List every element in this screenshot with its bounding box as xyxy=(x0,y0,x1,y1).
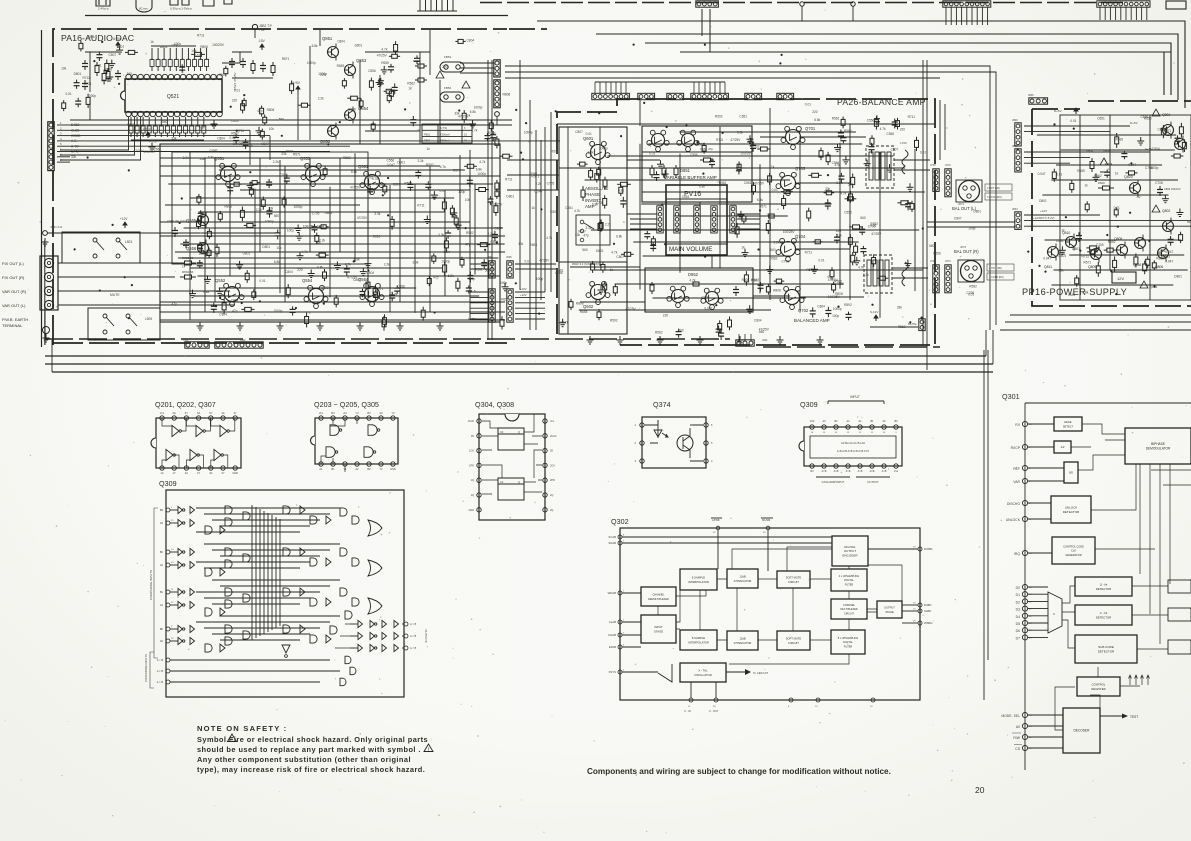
supply arrow A+5V xyxy=(117,42,119,48)
svg-text:R562: R562 xyxy=(832,117,840,121)
svg-text:A0: A0 xyxy=(160,639,164,643)
svg-text:Q301: Q301 xyxy=(1002,392,1020,401)
IC Q374 optocoupler xyxy=(642,417,706,468)
svg-text:100/25V: 100/25V xyxy=(740,152,753,156)
svg-text:D4BD: D4BD xyxy=(924,603,931,607)
svg-text:47/25V: 47/25V xyxy=(458,114,469,118)
svg-text:RXCP: RXCP xyxy=(1011,446,1021,450)
svg-text:Q701: Q701 xyxy=(805,126,816,131)
svg-text:47/25V: 47/25V xyxy=(626,307,637,311)
svg-text:C556: C556 xyxy=(555,271,563,275)
svg-text:CHANNEL: CHANNEL xyxy=(653,594,666,597)
svg-text:D+5V: D+5V xyxy=(1130,121,1138,125)
svg-text:2.2k: 2.2k xyxy=(256,208,262,212)
svg-text:33k: 33k xyxy=(825,187,831,191)
warning Q802 label xyxy=(1152,205,1160,212)
Q301 pin MODE-SEL xyxy=(1022,712,1027,717)
svg-text:C807: C807 xyxy=(575,130,583,134)
zener diodes xyxy=(1091,158,1093,162)
Q301 block decoder xyxy=(1063,708,1100,753)
svg-text:Y4: Y4 xyxy=(355,411,359,415)
label A+5V mid xyxy=(147,132,149,138)
svg-text:A=B: A=B xyxy=(834,470,839,473)
svg-text:47p: 47p xyxy=(257,109,263,113)
svg-text:47p: 47p xyxy=(934,285,940,289)
Q301 block c-bit detector xyxy=(1075,605,1132,625)
svg-text:6.8k: 6.8k xyxy=(1082,291,1088,295)
comb connector top xyxy=(417,0,457,11)
svg-text:Q703: Q703 xyxy=(795,166,806,171)
svg-text:Vdd: Vdd xyxy=(810,420,815,423)
svg-text:6.8k: 6.8k xyxy=(274,260,280,264)
svg-text:R: R xyxy=(180,58,184,60)
svg-text:R571: R571 xyxy=(293,153,301,157)
svg-text:CASCADING INPUTS: CASCADING INPUTS xyxy=(144,654,148,682)
svg-text:ATTENUATOR: ATTENUATOR xyxy=(734,641,752,645)
svg-text:C651: C651 xyxy=(231,119,239,123)
svg-text:R562: R562 xyxy=(770,257,778,261)
transistor Q555 xyxy=(198,215,209,226)
Q302 block xtal oscillator xyxy=(680,663,726,682)
Q309 cascade input A>B xyxy=(166,680,170,684)
parts inside input sub-block xyxy=(596,171,598,174)
wires from connectors into pp16 xyxy=(1024,125,1130,127)
svg-text:R804 56: R804 56 xyxy=(182,270,194,274)
test point circles top xyxy=(800,2,804,6)
resistor R820 xyxy=(1098,187,1103,189)
svg-text:R571: R571 xyxy=(531,174,539,178)
Q302 block channel multiplexer xyxy=(831,599,867,619)
Q302 block input stage xyxy=(641,615,676,643)
svg-text:Vcc: Vcc xyxy=(319,411,324,415)
Q301 block half divider xyxy=(1054,441,1071,453)
svg-text:DEMULTIPLEXER: DEMULTIPLEXER xyxy=(648,598,669,601)
svg-text:100p: 100p xyxy=(468,277,475,281)
svg-text:Q820: Q820 xyxy=(1124,175,1133,179)
svg-text:R562: R562 xyxy=(407,82,415,86)
svg-text:R562: R562 xyxy=(343,156,351,160)
wire top bus left xyxy=(85,15,508,17)
svg-text:R655: R655 xyxy=(529,243,537,247)
svg-text:L503: L503 xyxy=(125,240,132,244)
svg-text:R808: R808 xyxy=(224,205,232,209)
svg-text:4.7k: 4.7k xyxy=(301,250,307,254)
op-amp Q553 xyxy=(306,167,321,182)
resistor network above Q521 xyxy=(151,45,196,47)
svg-text:Q561: Q561 xyxy=(358,164,369,169)
svg-text:0.01: 0.01 xyxy=(649,152,655,156)
svg-text:560: 560 xyxy=(162,120,168,124)
svg-text:0.01: 0.01 xyxy=(259,279,265,283)
svg-text:4.7k: 4.7k xyxy=(440,165,446,169)
Q302 outer box xyxy=(620,528,920,700)
svg-text:T500mA: T500mA xyxy=(440,139,450,143)
svg-text:0.01: 0.01 xyxy=(586,132,592,136)
svg-text:6A: 6A xyxy=(173,411,176,415)
Q301 pin RX xyxy=(1022,421,1027,426)
svg-text:R: R xyxy=(174,58,178,60)
IC Q203 nand gates xyxy=(315,418,398,464)
IC Q201 hex inverter xyxy=(156,418,241,468)
svg-text:4.7k: 4.7k xyxy=(546,236,552,240)
connector J502 single xyxy=(495,112,500,117)
inner rect Q309 pinout xyxy=(810,436,896,458)
Q301 block sub code detector xyxy=(1075,635,1137,663)
svg-text:MUTE: MUTE xyxy=(468,317,476,321)
svg-text:A<B: A<B xyxy=(882,470,887,473)
parts near D652 xyxy=(651,282,653,285)
svg-text:1Y: 1Y xyxy=(173,471,176,475)
svg-text:0.01: 0.01 xyxy=(772,188,778,192)
long verticals x990 xyxy=(989,78,991,330)
filter dashed box L701 xyxy=(866,146,894,188)
svg-text:C651: C651 xyxy=(682,195,690,199)
svg-text:100/25V: 100/25V xyxy=(233,142,246,146)
svg-text:10k: 10k xyxy=(277,246,283,250)
svg-text:C807: C807 xyxy=(109,53,117,57)
Q301 pin RXCP xyxy=(1022,444,1027,449)
extra wires PA16 upper xyxy=(70,119,512,121)
svg-text:J502: J502 xyxy=(183,338,189,342)
svg-text:DETECTOR: DETECTOR xyxy=(1096,615,1111,619)
capacitor group right of Q521 xyxy=(231,58,233,62)
transistor Q556 xyxy=(198,243,209,254)
svg-text:D801: D801 xyxy=(325,211,333,215)
connector J501 column xyxy=(494,80,500,108)
svg-text:DOBM: DOBM xyxy=(924,547,933,551)
svg-text:REGISTER: REGISTER xyxy=(1091,687,1105,691)
svg-text:1k: 1k xyxy=(408,86,412,90)
dashed frame continuation right of PA16 xyxy=(509,28,547,30)
svg-text:ENCODER: ENCODER xyxy=(842,553,858,557)
Q301 pin R/W xyxy=(1022,734,1027,739)
wires amp block horizontals xyxy=(160,157,500,159)
svg-text:INPUT: INPUT xyxy=(850,395,860,399)
frame PA26-BALANCE AMP block xyxy=(557,99,935,345)
svg-text:8 x UPSAMPLING: 8 x UPSAMPLING xyxy=(838,637,858,640)
svg-text:R562: R562 xyxy=(655,330,663,334)
transistor group Q851 xyxy=(328,47,339,58)
svg-text:D801: D801 xyxy=(1039,199,1047,203)
svg-text:PHL.B: PHL.B xyxy=(468,289,476,293)
svg-text:CONTROL CODE: CONTROL CODE xyxy=(1063,545,1084,549)
IC Q304 dual flip-flop xyxy=(479,414,545,520)
svg-text:4 x UPSAMPLING: 4 x UPSAMPLING xyxy=(839,575,859,578)
tall input sub-block rect xyxy=(559,127,627,334)
svg-text:D0: D0 xyxy=(1016,586,1020,590)
svg-text:R592: R592 xyxy=(844,303,852,307)
svg-text:Q811: Q811 xyxy=(1044,265,1052,269)
svg-text:Q602: Q602 xyxy=(583,304,594,309)
svg-text:!: ! xyxy=(428,746,429,751)
connector J704 J074 xyxy=(933,265,939,293)
svg-text:R808: R808 xyxy=(267,108,275,112)
svg-text:FB51: FB51 xyxy=(424,132,431,136)
svg-text:CASCADE INPUT: CASCADE INPUT xyxy=(822,480,845,484)
extra parts PP16 xyxy=(1171,155,1174,157)
svg-text:2CLR: 2CLR xyxy=(550,435,557,438)
svg-text:1k: 1k xyxy=(182,264,186,268)
svg-text:R571: R571 xyxy=(1084,260,1092,264)
svg-text:47/25V: 47/25V xyxy=(377,54,388,58)
Q309 output buffer chains xyxy=(350,623,358,625)
Q302 block sample interpolator 1 xyxy=(680,569,717,590)
svg-text:C651: C651 xyxy=(373,235,381,239)
svg-text:Q553: Q553 xyxy=(300,156,311,161)
small box top far right xyxy=(1166,1,1186,9)
svg-text:100/25V: 100/25V xyxy=(490,203,503,207)
svg-text:R592: R592 xyxy=(969,284,977,288)
Q302 bottom pins xyxy=(689,698,693,702)
svg-text:DETECTOR: DETECTOR xyxy=(1098,649,1115,653)
svg-text:D651: D651 xyxy=(680,168,691,173)
svg-text:OSCILLATOR: OSCILLATOR xyxy=(694,673,711,677)
svg-text:1A: 1A xyxy=(160,471,163,475)
wire bus bends right edge xyxy=(1140,21,1185,108)
svg-text:220: 220 xyxy=(232,98,238,102)
svg-text:R: R xyxy=(162,58,166,60)
Q302 block 4x upsampling filter xyxy=(831,569,867,591)
svg-text:8Cmm: 8Cmm xyxy=(139,7,148,11)
svg-text:R: R xyxy=(192,58,196,60)
Q301 mux trapezoid xyxy=(1048,592,1062,633)
svg-text:33k: 33k xyxy=(897,305,903,309)
svg-text:0.047: 0.047 xyxy=(387,163,395,167)
svg-text:33k: 33k xyxy=(575,233,581,237)
flip-flop boxes inside Q304 xyxy=(498,428,524,450)
svg-text:4A: 4A xyxy=(221,411,224,415)
transistor Q852 xyxy=(328,126,339,137)
svg-text:DEMODULATOR: DEMODULATOR xyxy=(1146,446,1171,450)
svg-text:R655: R655 xyxy=(1058,252,1066,256)
svg-text:Q304, Q308: Q304, Q308 xyxy=(475,400,514,409)
svg-text:SLBD: SLBD xyxy=(924,609,931,613)
svg-text:Q601: Q601 xyxy=(583,136,594,141)
svg-text:TERMINAL: TERMINAL xyxy=(2,323,23,328)
svg-text:10k: 10k xyxy=(465,198,471,202)
svg-text:P.W.B. EARTH: P.W.B. EARTH xyxy=(2,317,28,322)
svg-text:R562: R562 xyxy=(697,143,705,147)
connector J806 top xyxy=(1029,98,1048,104)
Q302 xtal circuit label xyxy=(726,671,745,673)
svg-text:0.047: 0.047 xyxy=(751,278,759,282)
connector J511 xyxy=(48,122,54,171)
transistor row power regs xyxy=(1048,247,1059,258)
connector top right 1 xyxy=(943,1,991,7)
svg-text:47/25V: 47/25V xyxy=(828,278,839,282)
svg-text:6.8k: 6.8k xyxy=(699,184,705,188)
svg-text:6.8k: 6.8k xyxy=(203,290,209,294)
svg-text:To CIRCUIT: To CIRCUIT xyxy=(753,671,768,675)
svg-text:A3: A3 xyxy=(379,411,383,415)
svg-text:Q309: Q309 xyxy=(159,479,177,488)
svg-text:10k: 10k xyxy=(191,49,197,53)
svg-text:R808: R808 xyxy=(348,108,356,112)
svg-text:Q852: Q852 xyxy=(320,139,331,144)
svg-text:CHANNEL: CHANNEL xyxy=(843,604,856,607)
svg-text:Q802: Q802 xyxy=(1162,209,1170,213)
inner sub-block amp rect 2 xyxy=(172,152,368,264)
svg-text:C651: C651 xyxy=(739,115,747,119)
wires Q85x area xyxy=(309,46,311,140)
svg-text:2.2k: 2.2k xyxy=(535,182,541,186)
svg-text:1k: 1k xyxy=(741,246,745,250)
svg-text:4.7k: 4.7k xyxy=(689,279,695,283)
Q309 input row B1 xyxy=(166,590,170,594)
svg-text:6.8k: 6.8k xyxy=(317,265,323,269)
Q301 right edge boxes xyxy=(1168,580,1191,593)
svg-text:R562: R562 xyxy=(404,181,412,185)
Q301 pin DISCHG xyxy=(1022,500,1027,505)
svg-text:MODE- SEL: MODE- SEL xyxy=(1001,714,1020,718)
Q302 left pins xyxy=(618,535,622,539)
wires Q521 top right to caps xyxy=(222,52,240,63)
mute connector J605 xyxy=(919,319,925,331)
svg-text:0.047: 0.047 xyxy=(210,148,218,152)
svg-text:2.2k: 2.2k xyxy=(273,160,279,164)
Q301 block biphase demodulator xyxy=(1125,428,1191,464)
warning triangle in text 2 xyxy=(424,744,433,752)
svg-text:5Y: 5Y xyxy=(209,411,212,415)
svg-text:0.047: 0.047 xyxy=(1165,250,1173,254)
svg-text:33k: 33k xyxy=(1059,269,1065,273)
wires input sub-block xyxy=(559,167,627,169)
svg-text:0.01: 0.01 xyxy=(230,136,236,140)
svg-text:4.7k: 4.7k xyxy=(381,48,387,52)
wires vertical spine mid xyxy=(519,60,521,290)
svg-text:R/W: R/W xyxy=(1013,736,1020,740)
svg-text:6Y: 6Y xyxy=(185,411,188,415)
connector J520 column xyxy=(494,60,500,77)
ground under Q521 xyxy=(213,120,215,124)
svg-text:C705: C705 xyxy=(1096,243,1104,247)
warning triangle Q803 xyxy=(1140,281,1148,288)
op-amp Q701 xyxy=(786,130,801,145)
svg-text:R808: R808 xyxy=(1105,162,1113,166)
svg-text:PA26-BALANCE AMP: PA26-BALANCE AMP xyxy=(837,97,926,107)
Q302 internal wires xyxy=(658,547,902,664)
switch box S601 xyxy=(576,215,610,245)
XLR jack BAL OUT R xyxy=(961,261,982,282)
svg-text:560: 560 xyxy=(279,118,285,122)
svg-text:R: R xyxy=(205,58,209,60)
svg-text:STAGE: STAGE xyxy=(654,629,663,633)
svg-text:R562: R562 xyxy=(1094,174,1102,178)
Q309 input row A0 xyxy=(166,639,170,643)
svg-text:2.2k: 2.2k xyxy=(384,262,390,266)
svg-text:J074: J074 xyxy=(945,259,951,263)
svg-text:0.01: 0.01 xyxy=(1070,119,1076,123)
stubs above connector row xyxy=(595,82,725,93)
svg-text:1000p: 1000p xyxy=(524,131,533,135)
svg-text:0.3Vp-p 2-5Vp-p: 0.3Vp-p 2-5Vp-p xyxy=(170,7,192,11)
Q309 input row A2 xyxy=(166,563,170,567)
svg-text:0.01: 0.01 xyxy=(818,258,824,262)
Q309 input row B2 xyxy=(166,550,170,554)
svg-text:1000p: 1000p xyxy=(477,172,486,176)
svg-text:J804: J804 xyxy=(1012,207,1018,211)
svg-text:C804: C804 xyxy=(337,40,345,44)
svg-text:1CLR: 1CLR xyxy=(468,420,475,423)
svg-text:D801: D801 xyxy=(973,210,981,214)
Q301 arrows above control register xyxy=(1129,675,1150,685)
svg-text:0.047: 0.047 xyxy=(535,190,543,194)
svg-text:A4: A4 xyxy=(343,411,347,415)
svg-text:(+12/SPOT/-5.2V): (+12/SPOT/-5.2V) xyxy=(1032,216,1055,220)
wires below pp16 xyxy=(1010,314,1191,316)
LED inside Q374 xyxy=(645,420,668,443)
svg-text:1CK: 1CK xyxy=(469,450,474,453)
op-amp Q702 xyxy=(785,290,800,305)
svg-text:1D: 1D xyxy=(471,435,474,438)
svg-text:R808: R808 xyxy=(773,288,781,292)
svg-text:R711: R711 xyxy=(505,178,513,182)
svg-text:560: 560 xyxy=(929,244,935,248)
svg-text:Q556: Q556 xyxy=(186,246,197,251)
svg-text:Q302: Q302 xyxy=(611,517,629,526)
svg-text:B2: B2 xyxy=(160,550,164,554)
transistor Q854 xyxy=(345,110,356,121)
warning triangle FB51 xyxy=(436,71,444,78)
extra verticals PA26 xyxy=(769,108,771,300)
svg-text:C705: C705 xyxy=(84,82,92,86)
coil L703 xyxy=(902,150,908,174)
svg-text:SOFT MUTE: SOFT MUTE xyxy=(786,637,802,641)
extra parts PA26 right top xyxy=(876,115,878,119)
parts right of amps xyxy=(845,198,848,200)
frame PA16-AUDIO DAC block xyxy=(53,29,507,345)
svg-text:1000p: 1000p xyxy=(87,94,96,98)
svg-text:X - OUT: X - OUT xyxy=(709,709,719,713)
svg-text:VARIABLE BUFFER AMP: VARIABLE BUFFER AMP xyxy=(664,175,717,180)
svg-text:47/25V: 47/25V xyxy=(539,259,550,263)
svg-text:0.047: 0.047 xyxy=(1038,172,1046,176)
svg-text:CIRCUIT: CIRCUIT xyxy=(788,580,799,584)
svg-text:560: 560 xyxy=(770,248,776,252)
svg-text:8 SAMPLE: 8 SAMPLE xyxy=(692,636,705,640)
earth jack xyxy=(43,327,50,334)
svg-text:6.8k: 6.8k xyxy=(208,156,214,160)
svg-text:R808: R808 xyxy=(503,92,511,96)
Q309 big or gates right xyxy=(368,520,382,614)
svg-text:R562: R562 xyxy=(466,231,474,235)
svg-text:33k: 33k xyxy=(200,157,206,161)
svg-text:3.3k: 3.3k xyxy=(444,250,450,254)
svg-text:A+5V: A+5V xyxy=(113,37,122,41)
vertical long wire to Q301 area xyxy=(983,350,985,700)
svg-text:2.2k: 2.2k xyxy=(318,97,324,101)
svg-text:Q809: Q809 xyxy=(1088,265,1096,269)
frame PP16-POWER SUPPLY block xyxy=(1032,101,1191,306)
inner rect pp16 xyxy=(1060,115,1191,300)
svg-text:J800: J800 xyxy=(1012,118,1018,122)
svg-text:A3 B2 A2 A1 B1 A0: A3 B2 A2 A1 B1 A0 xyxy=(841,441,865,445)
svg-text:100p: 100p xyxy=(174,42,181,46)
svg-text:R571: R571 xyxy=(1164,129,1172,133)
ground symbols row amp xyxy=(199,322,201,326)
svg-text:R602 3.3 (S/NE) 0.5(N): R602 3.3 (S/NE) 0.5(N) xyxy=(572,262,601,266)
resistor column right of amp xyxy=(461,257,463,260)
svg-text:1000p: 1000p xyxy=(265,219,274,223)
svg-text:5A: 5A xyxy=(197,411,200,415)
IC Q309 comparator pinout xyxy=(804,427,902,466)
diodes D851 xyxy=(415,65,418,67)
wire long horizontal buses top right xyxy=(537,20,1140,22)
svg-text:T500mA: T500mA xyxy=(440,132,450,136)
svg-text:R592: R592 xyxy=(1116,137,1124,141)
svg-text:J606: J606 xyxy=(506,255,512,259)
svg-text:!: ! xyxy=(231,736,232,741)
